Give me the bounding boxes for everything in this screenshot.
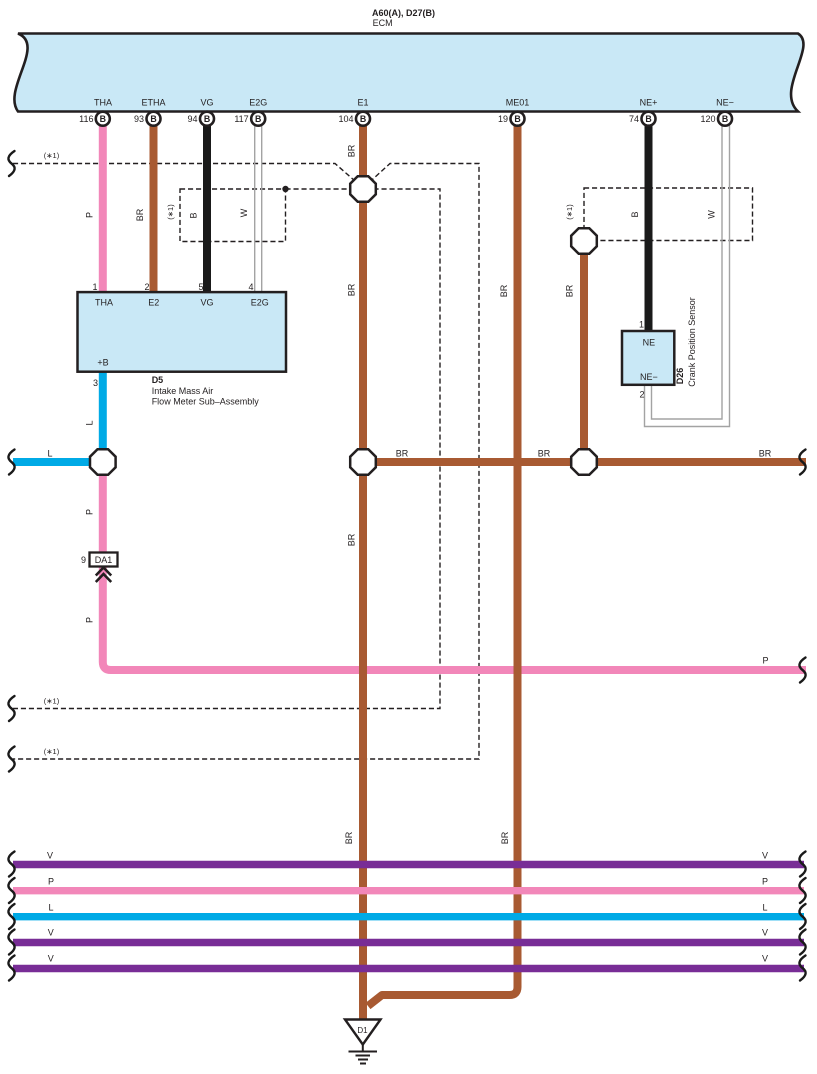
svg-text:94: 94 [187, 114, 197, 124]
svg-text:L: L [48, 903, 53, 913]
svg-text:9: 9 [81, 555, 86, 565]
svg-text:L: L [47, 449, 52, 459]
svg-text:Crank Position Sensor: Crank Position Sensor [687, 297, 697, 387]
svg-text:BR: BR [499, 284, 509, 297]
svg-text:P: P [85, 212, 95, 218]
svg-text:ME01: ME01 [506, 98, 530, 108]
svg-text:+B: +B [97, 358, 108, 368]
svg-text:DA1: DA1 [95, 555, 113, 565]
svg-text:(∗1): (∗1) [44, 697, 60, 706]
svg-text:THA: THA [95, 298, 113, 308]
svg-text:BR: BR [500, 831, 510, 844]
svg-text:NE+: NE+ [640, 98, 658, 108]
svg-text:VG: VG [200, 298, 213, 308]
svg-text:104: 104 [338, 114, 353, 124]
svg-text:L: L [85, 420, 95, 425]
svg-text:E1: E1 [357, 98, 368, 108]
svg-text:93: 93 [134, 114, 144, 124]
svg-text:B: B [100, 114, 106, 124]
svg-text:B: B [204, 114, 210, 124]
svg-text:ETHA: ETHA [141, 98, 165, 108]
svg-text:P: P [85, 509, 95, 515]
svg-text:V: V [48, 928, 54, 938]
svg-text:1: 1 [92, 282, 97, 292]
svg-text:BR: BR [344, 831, 354, 844]
svg-text:19: 19 [498, 114, 508, 124]
svg-text:BR: BR [565, 284, 575, 297]
svg-text:NE: NE [643, 338, 656, 348]
svg-text:B: B [722, 114, 728, 124]
svg-text:BR: BR [396, 449, 409, 459]
svg-text:2: 2 [639, 390, 644, 400]
svg-text:V: V [762, 954, 768, 964]
svg-text:5: 5 [198, 282, 203, 292]
svg-text:B: B [360, 114, 366, 124]
svg-text:BR: BR [347, 144, 357, 157]
svg-text:W: W [707, 210, 717, 219]
svg-text:W: W [239, 208, 249, 217]
svg-text:(∗1): (∗1) [44, 151, 60, 160]
svg-text:D1: D1 [357, 1026, 368, 1035]
svg-text:Flow Meter Sub–Assembly: Flow Meter Sub–Assembly [152, 397, 260, 407]
svg-text:V: V [762, 928, 768, 938]
svg-text:2: 2 [144, 282, 149, 292]
svg-text:B: B [255, 114, 261, 124]
svg-text:V: V [47, 851, 53, 861]
svg-text:74: 74 [629, 114, 639, 124]
svg-text:4: 4 [248, 282, 253, 292]
svg-text:VG: VG [200, 98, 213, 108]
svg-text:BR: BR [759, 449, 772, 459]
svg-text:V: V [762, 851, 768, 861]
svg-text:P: P [762, 656, 768, 666]
svg-text:BR: BR [347, 283, 357, 296]
svg-text:120: 120 [700, 114, 715, 124]
svg-text:NE−: NE− [716, 98, 734, 108]
svg-text:P: P [48, 877, 54, 887]
svg-text:V: V [48, 954, 54, 964]
svg-text:E2G: E2G [249, 98, 267, 108]
svg-text:B: B [150, 114, 156, 124]
svg-text:E2G: E2G [251, 298, 269, 308]
svg-text:1: 1 [639, 320, 644, 330]
svg-text:(∗1): (∗1) [565, 204, 574, 220]
svg-text:B: B [189, 212, 199, 218]
svg-text:116: 116 [79, 114, 93, 124]
svg-text:B: B [514, 114, 520, 124]
svg-text:THA: THA [94, 98, 112, 108]
svg-text:L: L [762, 903, 767, 913]
svg-text:Intake Mass Air: Intake Mass Air [152, 386, 214, 396]
svg-text:P: P [85, 617, 95, 623]
svg-text:117: 117 [234, 114, 248, 124]
svg-text:B: B [645, 114, 651, 124]
svg-text:BR: BR [538, 449, 551, 459]
svg-text:D26: D26 [675, 368, 685, 385]
svg-text:P: P [762, 877, 768, 887]
svg-text:ECM: ECM [373, 18, 393, 28]
svg-text:B: B [630, 211, 640, 217]
svg-text:E2: E2 [148, 298, 159, 308]
svg-text:BR: BR [347, 533, 357, 546]
svg-text:BR: BR [135, 208, 145, 221]
svg-text:A60(A), D27(B): A60(A), D27(B) [372, 8, 435, 18]
svg-text:NE−: NE− [640, 372, 658, 382]
svg-text:3: 3 [93, 378, 98, 388]
svg-text:(∗1): (∗1) [166, 204, 175, 220]
svg-text:D5: D5 [152, 375, 164, 385]
svg-text:(∗1): (∗1) [44, 747, 60, 756]
